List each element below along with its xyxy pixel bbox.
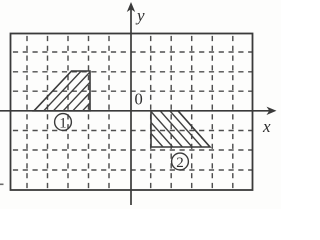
y-axis: [130, 7, 132, 205]
svg-text:1: 1: [59, 116, 67, 132]
svg-text:y: y: [135, 6, 145, 25]
label circled 2: [172, 153, 189, 171]
scan speck on left edge: [0, 184, 4, 186]
x-axis: [0, 110, 272, 112]
border rectangle: [11, 34, 253, 191]
svg-text:0: 0: [135, 90, 143, 109]
shape 1 : hatched trapezoid quadrant II: [34, 71, 134, 116]
horizontal grid lines: [11, 51, 253, 53]
y-axis arrowhead: [127, 2, 135, 12]
vertical grid lines: [26, 34, 28, 190]
dashed grid: [11, 34, 253, 190]
x-axis arrowhead: [267, 107, 277, 115]
shape 2 : hatched trapezoid quadrant IV: [131, 111, 212, 147]
svg-text:2: 2: [176, 155, 184, 171]
label circled 1: [55, 114, 72, 132]
svg-text:x: x: [262, 117, 271, 136]
